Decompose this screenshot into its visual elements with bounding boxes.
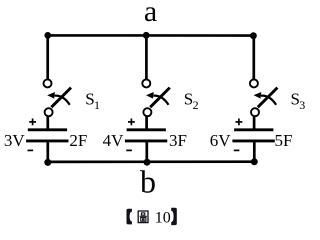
wire branch1 bottom vertical	[46, 140, 49, 163]
svg-text:2F: 2F	[69, 131, 87, 150]
plus sign branch2	[128, 119, 135, 126]
wire branch3 bottom vertical	[253, 140, 256, 163]
minus sign branch3	[234, 149, 240, 151]
junction dot bottom branch1	[44, 159, 51, 166]
switch S2	[142, 79, 170, 116]
top wire a	[48, 34, 254, 37]
caption left bracket	[127, 209, 132, 225]
junction dot bottom branch2	[144, 159, 151, 166]
caption CJK glyph	[138, 211, 148, 223]
wire branch3 mid vertical	[253, 116, 256, 130]
minus sign branch2	[126, 149, 132, 151]
junction dot top branch1	[44, 32, 51, 39]
wire branch1 mid vertical	[46, 116, 49, 130]
wire branch1 top vertical	[46, 34, 49, 80]
wire branch3 top vertical	[252, 34, 255, 80]
wire branch2 bottom vertical	[145, 140, 148, 163]
svg-text:6V: 6V	[210, 131, 232, 150]
switch S1	[44, 79, 72, 116]
svg-text:10: 10	[155, 210, 171, 227]
caption right bracket	[171, 208, 177, 225]
junction dot top branch2	[143, 32, 150, 39]
svg-text:3: 3	[299, 98, 305, 112]
svg-text:3V: 3V	[4, 131, 26, 150]
svg-text:1: 1	[94, 98, 100, 112]
junction dot top branch3	[250, 32, 257, 39]
wire branch2 mid vertical	[145, 116, 148, 130]
capacitor branch3 plates	[232, 130, 274, 141]
wire branch2 top vertical	[145, 34, 148, 80]
switch S3	[250, 79, 278, 116]
svg-text:a: a	[144, 0, 157, 28]
svg-text:5F: 5F	[275, 131, 293, 150]
junction dot bottom branch3	[251, 158, 258, 165]
plus sign branch1	[29, 119, 36, 126]
bottom wire b	[48, 160, 255, 163]
svg-text:b: b	[140, 163, 156, 199]
svg-text:4V: 4V	[103, 131, 125, 150]
plus sign branch3	[236, 119, 243, 126]
svg-text:3F: 3F	[169, 131, 187, 150]
svg-text:2: 2	[193, 98, 199, 112]
minus sign branch1	[28, 149, 34, 151]
capacitor branch1 plates	[26, 130, 68, 141]
capacitor branch2 plates	[125, 130, 167, 141]
